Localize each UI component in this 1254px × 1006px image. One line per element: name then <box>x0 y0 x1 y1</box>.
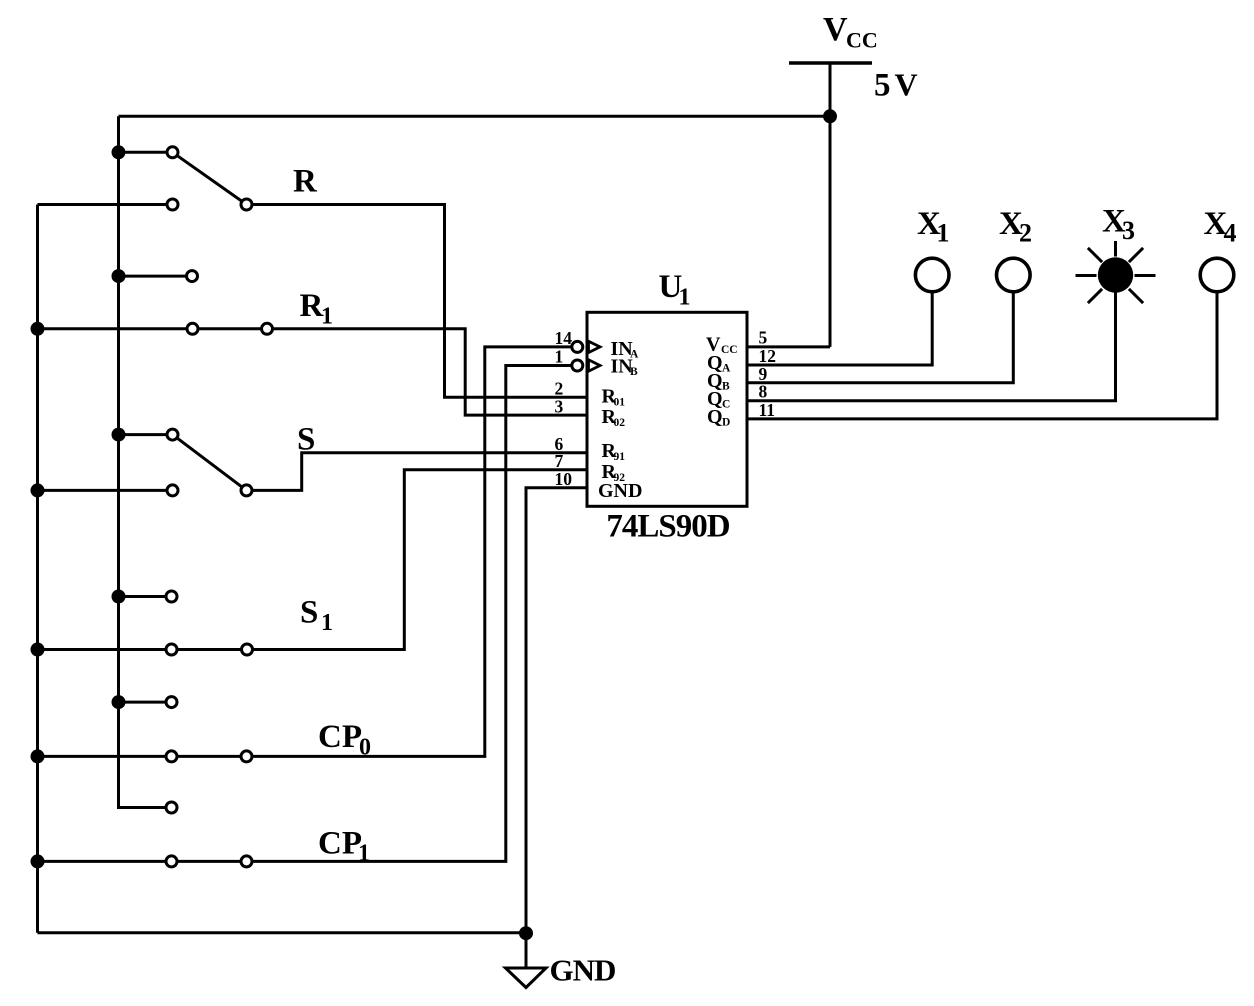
svg-text:CP: CP <box>318 826 362 862</box>
value label 5 V <box>874 67 918 104</box>
svg-text:02: 02 <box>614 417 626 429</box>
svg-text:1: 1 <box>555 347 564 367</box>
lamp X4 <box>1200 258 1234 292</box>
pin label QB <box>707 370 730 393</box>
pin number 11 <box>759 400 776 420</box>
VCC power symbol <box>789 61 872 65</box>
lamp X1 <box>915 258 949 292</box>
pin label VCC <box>706 334 738 357</box>
pin number 5 <box>759 327 768 347</box>
pin label INA <box>611 338 640 361</box>
svg-text:V: V <box>823 11 848 48</box>
pin number 14 <box>555 328 573 348</box>
VCC label <box>823 11 878 53</box>
svg-text:GND: GND <box>550 953 616 988</box>
label CP1 <box>318 826 370 867</box>
svg-text:74LS90D: 74LS90D <box>606 509 729 545</box>
pin number 7 <box>555 451 564 471</box>
label S1 <box>300 595 333 637</box>
svg-text:V: V <box>895 67 918 103</box>
svg-text:5: 5 <box>759 327 768 347</box>
svg-text:10: 10 <box>555 469 573 489</box>
pin 14 bubble and clock triangle <box>572 341 600 352</box>
pin label R92 <box>602 461 626 484</box>
svg-text:1: 1 <box>679 285 691 311</box>
junction GND node <box>519 926 533 940</box>
wire CP1 to pin 1 <box>252 366 572 862</box>
pin label R02 <box>602 406 626 429</box>
op-amp U1 chip body 74LS90D <box>587 312 747 506</box>
svg-text:3: 3 <box>1122 216 1135 245</box>
label X1 <box>917 206 950 248</box>
switch S <box>31 428 253 498</box>
wire R1 to pin 3 <box>273 329 588 415</box>
wire S to pin 6 <box>252 453 587 491</box>
svg-text:CC: CC <box>846 28 878 53</box>
pin number 3 <box>555 396 564 416</box>
pin label QA <box>707 352 731 375</box>
svg-text:R: R <box>293 164 318 200</box>
wire pin 12 to lamp X1 <box>747 292 932 365</box>
label X3 <box>1102 204 1135 246</box>
pin number 6 <box>555 434 564 454</box>
switch CP0 <box>31 695 253 763</box>
pin number 10 <box>555 469 573 489</box>
wire GND left rail (vertical) <box>36 205 39 933</box>
label S <box>297 422 315 458</box>
wire pin 8 to lamp X3 <box>747 292 1116 401</box>
wire pin 10 to ground <box>526 488 587 968</box>
value 74LS90D <box>606 509 729 545</box>
pin label QC <box>707 388 730 411</box>
svg-text:A: A <box>722 363 731 375</box>
label R1 <box>300 288 334 330</box>
svg-text:D: D <box>722 417 730 429</box>
pin number 9 <box>759 364 768 384</box>
pin label R91 <box>602 440 626 463</box>
label CP0 <box>318 719 371 761</box>
pin 1 bubble and clock triangle <box>572 360 600 371</box>
svg-text:5: 5 <box>874 68 891 104</box>
pin label QD <box>707 406 730 429</box>
svg-text:1: 1 <box>937 219 950 248</box>
svg-text:1: 1 <box>321 610 333 636</box>
wire CP0 to pin 14 <box>252 347 572 757</box>
wire R to pin 2 <box>252 205 587 398</box>
switch R1 <box>31 269 273 336</box>
lamp X2 <box>997 258 1031 292</box>
pin label R01 <box>602 386 626 409</box>
switch S1 <box>31 590 253 657</box>
svg-text:11: 11 <box>759 400 776 420</box>
svg-text:GND: GND <box>598 480 642 502</box>
pin label GND <box>598 480 642 502</box>
svg-text:S: S <box>300 595 318 631</box>
pin number 1 <box>555 347 564 367</box>
pin number 12 <box>759 346 777 366</box>
label X2 <box>999 206 1032 248</box>
svg-text:3: 3 <box>555 396 564 416</box>
svg-text:B: B <box>722 381 730 393</box>
lamp X3 (lit) <box>1076 241 1156 310</box>
svg-text:8: 8 <box>759 382 768 402</box>
junction VCC node <box>823 109 837 123</box>
wire pin 11 to lamp X4 <box>747 292 1217 419</box>
wire pin 9 to lamp X2 <box>747 292 1013 383</box>
svg-text:B: B <box>630 366 638 378</box>
pin number 8 <box>759 382 768 402</box>
wire VCC left rail (vertical) <box>119 116 172 807</box>
svg-text:CP: CP <box>318 719 362 755</box>
svg-text:CC: CC <box>721 344 738 356</box>
ground <box>506 968 547 988</box>
wire S1 to pin 7 <box>253 470 588 650</box>
wire VCC vertical down to pin 5 <box>829 63 832 347</box>
switch R <box>38 145 253 210</box>
refdes U1 <box>659 269 691 311</box>
label R <box>293 164 318 200</box>
pin number 2 <box>555 379 564 399</box>
label X4 <box>1204 206 1237 248</box>
wire pin 5 to VCC rail <box>747 345 830 348</box>
switch CP1 <box>31 802 253 868</box>
pin label INB <box>611 356 639 379</box>
svg-text:C: C <box>722 399 730 411</box>
wire top VCC bus to left rail <box>119 115 831 118</box>
svg-text:4: 4 <box>1224 219 1237 248</box>
svg-text:14: 14 <box>555 328 573 348</box>
svg-text:1: 1 <box>321 304 333 330</box>
svg-text:2: 2 <box>1019 219 1032 248</box>
svg-text:Q: Q <box>707 406 723 428</box>
wire GND bottom bus <box>38 931 527 934</box>
svg-text:7: 7 <box>555 451 564 471</box>
label GND <box>550 953 616 988</box>
